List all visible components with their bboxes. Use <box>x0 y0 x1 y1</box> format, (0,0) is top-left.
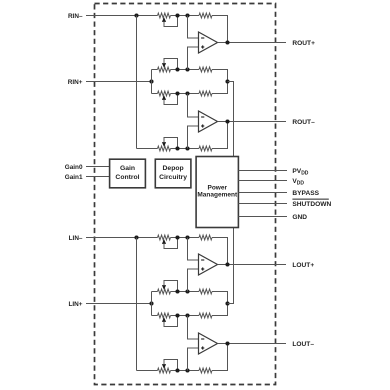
variable resistor LRV3 (LIN+ gain) <box>158 313 178 326</box>
pin label LOUT+ <box>292 262 314 269</box>
pin label ROUT- <box>292 119 315 126</box>
pin label ROUT+ <box>292 40 315 47</box>
wire RIN- input line <box>86 15 158 17</box>
node rowA wiper junction <box>175 289 179 293</box>
wire RIN+ input line <box>86 81 152 83</box>
resistor RRF2 (to bypass) <box>199 67 212 72</box>
wire rowC node segment <box>171 148 200 150</box>
node LIN+ junction <box>149 301 153 305</box>
wire feedback LOUT+ <box>212 238 228 265</box>
variable resistor RRV4 (RIN- gain) <box>158 138 178 151</box>
svg-text:LOUT–: LOUT– <box>292 341 314 348</box>
svg-text:Control: Control <box>115 174 139 181</box>
block Power Management <box>196 157 238 228</box>
svg-text:ROUT–: ROUT– <box>292 119 315 126</box>
wire rowB to amp inverting input <box>188 316 199 340</box>
svg-text:LOUT+: LOUT+ <box>292 262 314 269</box>
pin label LOUT- <box>292 341 314 348</box>
wire feedback ROUT- <box>212 122 228 149</box>
wire LIN+ bracket vertical <box>151 292 153 316</box>
wire mid bracket rows A-B <box>212 292 228 316</box>
node rowC wiper junction <box>175 146 179 150</box>
wire RIN+ bracket vertical <box>151 70 153 94</box>
wire feedback LOUT- <box>212 344 228 371</box>
variable resistor LRV2 (LIN+ gain) <box>158 281 178 294</box>
svg-text:Gain: Gain <box>120 165 135 172</box>
variable resistor RRV1 (RIN- gain) <box>158 13 178 26</box>
wire mid bracket rows A-B <box>212 70 228 94</box>
node LOUT- output junction <box>225 341 229 345</box>
wire rowC node segment <box>171 370 200 372</box>
node row1 inverting-input junction <box>185 13 189 17</box>
variable resistor LRV4 (LIN- gain) <box>158 360 178 373</box>
wire LIN- input line <box>86 237 158 239</box>
wire LOUT- output line <box>218 343 287 345</box>
wire rowA to amp noninverting input <box>188 47 199 70</box>
pin label SHUTDOWN (active low) <box>292 199 331 208</box>
svg-text:RIN+: RIN+ <box>68 79 83 86</box>
node mid bypass junction <box>225 301 229 305</box>
wire LIN+ to row B <box>152 315 158 317</box>
node rowC noninverting-input junction <box>185 146 189 150</box>
node LOUT+ output junction <box>225 262 229 266</box>
wire rowA to amp noninverting input <box>188 269 199 292</box>
resistor LRF4 (feedback LOUT-) <box>199 368 212 373</box>
wire BYPASS pin line <box>238 192 287 194</box>
node rowA noninverting-input junction <box>185 289 189 293</box>
node rowC noninverting-input junction <box>185 368 189 372</box>
wire LOUT+ output line <box>218 264 287 266</box>
node ROUT+ output junction <box>225 40 229 44</box>
node rowB inverting-input junction <box>185 91 189 95</box>
node row1 wiper junction <box>175 13 179 17</box>
op-amp U1 (ROUT+ driver) <box>199 32 218 53</box>
node mid bypass junction <box>225 79 229 83</box>
svg-text:Gain0: Gain0 <box>65 164 83 171</box>
op-amp U3 (LOUT+ driver) <box>199 254 218 275</box>
svg-text:GND: GND <box>292 214 307 221</box>
svg-text:Circuitry: Circuitry <box>159 174 187 181</box>
svg-text:BYPASS: BYPASS <box>292 190 319 197</box>
svg-text:Management: Management <box>197 192 238 199</box>
wire rowB to amp inverting input <box>188 94 199 118</box>
wire GND pin line <box>238 216 287 218</box>
wire rowB node segment <box>171 315 200 317</box>
svg-text:Depop: Depop <box>163 165 184 172</box>
wire row1 node segment <box>171 15 200 17</box>
wire PVDD pin line <box>238 170 287 172</box>
block Gain Control <box>110 159 146 188</box>
svg-text:ROUT+: ROUT+ <box>292 40 315 47</box>
IC boundary (dashed) <box>95 4 276 385</box>
svg-text:LIN–: LIN– <box>69 235 83 242</box>
wire LIN- lower branch to row C <box>137 370 158 372</box>
node rowA wiper junction <box>175 67 179 71</box>
wire RIN- lower branch to row C <box>137 148 158 150</box>
wire SHUTDOWN pin line <box>238 203 287 205</box>
wire VDD pin line <box>238 180 287 182</box>
resistor LRF3 (to bypass) <box>199 313 212 318</box>
wire rowA node segment <box>171 69 200 71</box>
wire RIN+ to row A <box>152 69 158 71</box>
pin label VDD <box>292 178 304 187</box>
wire bypass to power management <box>228 82 234 157</box>
wire row1 to amp inverting input <box>188 16 199 39</box>
node rowA noninverting-input junction <box>185 67 189 71</box>
wire LIN+ input line <box>86 303 152 305</box>
svg-text:LIN+: LIN+ <box>68 301 82 308</box>
pin label GND <box>292 214 307 221</box>
wire feedback ROUT+ <box>212 16 228 43</box>
wire rowC to amp noninverting input <box>188 348 199 371</box>
resistor RRF4 (feedback ROUT-) <box>199 146 212 151</box>
node LIN- junction <box>134 235 138 239</box>
block Depop Circuitry <box>155 159 191 188</box>
wire row1 to amp inverting input <box>188 238 199 261</box>
wire Gain1 input line <box>86 176 110 178</box>
op-amp U4 (LOUT- driver) <box>199 333 218 354</box>
pin label PVDD <box>292 168 308 177</box>
resistor LRF2 (to bypass) <box>199 289 212 294</box>
resistor RRF1 (feedback ROUT+) <box>199 13 212 18</box>
wire LIN- branch vertical <box>136 238 138 371</box>
node rowB wiper junction <box>175 313 179 317</box>
resistor RRF3 (to bypass) <box>199 91 212 96</box>
pin label BYPASS <box>292 190 319 197</box>
wire ROUT- output line <box>218 121 287 123</box>
svg-text:RIN–: RIN– <box>68 13 83 20</box>
node row1 wiper junction <box>175 235 179 239</box>
svg-text:SHUTDOWN: SHUTDOWN <box>292 201 331 208</box>
node row1 inverting-input junction <box>185 235 189 239</box>
node rowB inverting-input junction <box>185 313 189 317</box>
node RIN- junction <box>134 13 138 17</box>
wire Gain0 input line <box>86 166 110 168</box>
op-amp U2 (ROUT- driver) <box>199 111 218 132</box>
wire RIN- branch vertical <box>136 16 138 149</box>
variable resistor LRV1 (LIN- gain) <box>158 235 178 248</box>
variable resistor RRV3 (RIN+ gain) <box>158 91 178 104</box>
wire row1 node segment <box>171 237 200 239</box>
wire rowB node segment <box>171 93 200 95</box>
node rowB wiper junction <box>175 91 179 95</box>
node ROUT- output junction <box>225 119 229 123</box>
wire LIN+ to row A <box>152 291 158 293</box>
node rowC wiper junction <box>175 368 179 372</box>
resistor LRF1 (feedback LOUT+) <box>199 235 212 240</box>
svg-text:Gain1: Gain1 <box>65 174 83 181</box>
svg-text:Power: Power <box>207 184 227 191</box>
wire ROUT+ output line <box>218 42 287 44</box>
wire bypass to power management <box>228 228 234 304</box>
wire rowA node segment <box>171 291 200 293</box>
wire rowC to amp noninverting input <box>188 126 199 149</box>
wire RIN+ to row B <box>152 93 158 95</box>
node RIN+ junction <box>149 79 153 83</box>
variable resistor RRV2 (RIN+ gain) <box>158 59 178 72</box>
